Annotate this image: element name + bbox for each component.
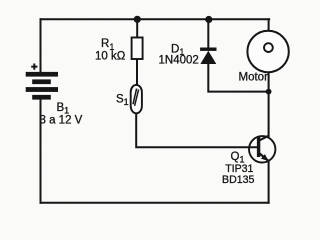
diode D1 cathode bar — [200, 48, 216, 51]
svg-text:TIP31: TIP31 — [225, 163, 253, 175]
motor shaft circle — [264, 43, 273, 52]
battery plus sign — [31, 64, 37, 70]
wire diode top (rail to cathode) — [207, 19, 209, 48]
wire motor bottom to node — [268, 72, 270, 92]
node B (top rail / D1 junction) — [205, 16, 212, 23]
battery B1 plates — [26, 72, 58, 100]
transistor Q1 emitter arrow — [261, 154, 269, 161]
diode D1 triangle — [200, 51, 216, 64]
wire motor top drop — [268, 19, 270, 31]
transistor Q1 collector stroke — [260, 136, 269, 140]
svg-text:10 kΩ: 10 kΩ — [95, 50, 126, 62]
switch S1 (reed) capsule — [131, 85, 142, 113]
svg-text:Motor: Motor — [239, 72, 269, 84]
node A (top rail / R1 junction) — [134, 16, 141, 23]
wire S1 bottom to base — [136, 113, 257, 147]
svg-text:BD135: BD135 — [222, 174, 254, 186]
svg-text:1N4002: 1N4002 — [159, 54, 199, 66]
wire diode bottom to node (middle rail) — [208, 64, 268, 92]
transistor Q1 emitter stroke — [260, 154, 269, 161]
wire bottom rail — [41, 202, 269, 204]
motor M body — [247, 31, 288, 72]
svg-text:3 a 12 V: 3 a 12 V — [40, 115, 83, 127]
transistor Q1 body circle — [249, 136, 275, 162]
wire collector drop — [268, 92, 270, 137]
wire left lower (battery - to bottom rail) — [40, 99, 42, 203]
transistor Q1 base bar — [257, 137, 260, 157]
wire left upper (battery + to top rail) — [40, 19, 42, 72]
node C (motor / diode / collector junction) — [266, 89, 272, 95]
wire R1 bottom to S1 — [136, 59, 138, 85]
wire emitter drop — [268, 161, 270, 203]
wire top rail — [41, 18, 270, 20]
wire R1 top — [136, 19, 138, 37]
switch S1 contacts — [133, 89, 139, 106]
resistor R1 body — [132, 38, 143, 60]
